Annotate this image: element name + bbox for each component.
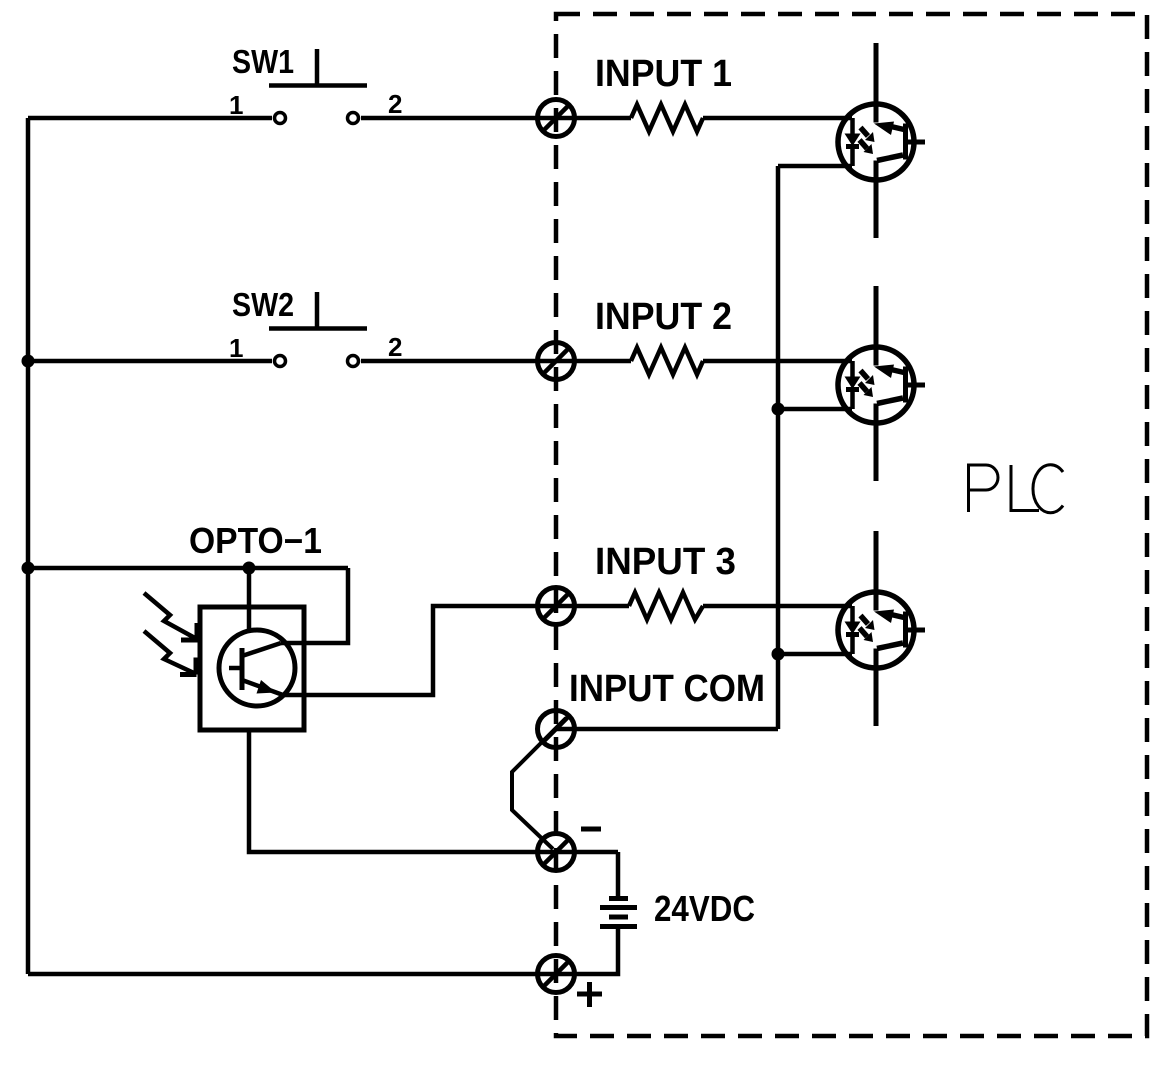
svg-text:INPUT COM: INPUT COM: [569, 668, 765, 710]
PLC label (single-stroke letters): [969, 465, 1064, 513]
junction dot bus / opto2 cathode: [772, 403, 785, 416]
Q1 emitter arrowhead: [257, 680, 277, 694]
optocoupler PLC input 1: [838, 43, 925, 238]
wire INPUT COM terminal to bus: [556, 727, 778, 732]
terminal INPUT 3: [538, 588, 575, 625]
junction dot bus / opto3 cathode: [772, 648, 785, 661]
wire battery to plus terminal: [556, 926, 618, 974]
svg-text:INPUT 2: INPUT 2: [595, 296, 732, 338]
SW1 contact 2: [348, 113, 359, 124]
SW2 contact 2: [348, 356, 359, 367]
svg-text:2: 2: [388, 332, 402, 362]
wire left bus to OPTO-1 top: [28, 566, 348, 571]
terminal INPUT 2: [538, 343, 575, 380]
wire OPTO-1 bottom pin to minus terminal: [249, 730, 618, 852]
plus sign: [577, 982, 602, 1007]
wire OPTO-1 top pin: [247, 568, 252, 630]
Q1 base bar: [240, 648, 245, 690]
wire R1 to optocoupler 1: [703, 116, 852, 121]
svg-text:24VDC: 24VDC: [654, 888, 755, 929]
Q1 collector: [242, 643, 281, 656]
svg-text:INPUT 3: INPUT 3: [595, 541, 736, 583]
resistor R3: [629, 593, 703, 620]
minus sign: [581, 827, 601, 832]
wire collector wrap: [281, 568, 348, 643]
photon arrow 2: [144, 631, 194, 673]
wire INPUT COM to minus terminal (squiggle): [512, 718, 566, 849]
svg-text:1: 1: [229, 90, 243, 120]
junction dot OPTO-1 top pin: [243, 562, 256, 575]
PLC enclosure dashed border: [556, 14, 1147, 1036]
svg-text:SW2: SW2: [232, 286, 294, 323]
wire opto3 LED cathode to bus: [778, 652, 852, 657]
SW2 actuator stem: [315, 292, 320, 328]
SW2 contact 1: [275, 356, 286, 367]
terminal minus: [538, 834, 575, 871]
svg-text:INPUT 1: INPUT 1: [595, 53, 732, 95]
optocoupler PLC input 3: [838, 531, 925, 726]
left bus wire: [26, 118, 31, 974]
wire minus terminal to battery: [616, 852, 621, 897]
SW1 contact 1: [275, 113, 286, 124]
junction dot left bus / OPTO-1: [22, 562, 35, 575]
svg-text:2: 2: [388, 89, 402, 119]
photon arrow 1: [144, 593, 195, 638]
optocoupler PLC input 2: [838, 286, 925, 481]
terminal INPUT 1: [538, 100, 575, 137]
wire R3 to optocoupler 3: [703, 604, 852, 609]
wire SW1 pin1: [28, 116, 272, 121]
SW2 actuator bar: [269, 326, 367, 331]
wire SW1 pin2 to INPUT 1 terminal: [361, 116, 631, 121]
Q1 emitter: [242, 680, 283, 695]
svg-text:SW1: SW1: [232, 43, 294, 80]
wire R2 to optocoupler 2: [703, 359, 852, 364]
phototransistor circle Q1: [219, 630, 295, 706]
wire opto2 LED cathode to bus: [778, 407, 852, 412]
terminal INPUT COM: [538, 711, 575, 748]
svg-text:1: 1: [229, 333, 243, 363]
svg-text:OPTO−1: OPTO−1: [189, 520, 322, 561]
wire SW2 pin2 to INPUT 2 terminal: [361, 359, 631, 364]
wire SW2 pin1: [28, 359, 272, 364]
terminal plus: [538, 956, 575, 993]
SW1 actuator stem: [315, 49, 320, 85]
junction dot left bus / SW2: [22, 355, 35, 368]
Q1 base stub: [229, 666, 242, 671]
wire OPTO-1 emitter to INPUT 3: [283, 606, 629, 695]
resistor R2: [631, 348, 703, 375]
resistor R1: [631, 105, 703, 132]
battery B1 24VDC: [609, 896, 628, 901]
SW1 actuator bar: [269, 83, 367, 88]
common bus wire (vertical): [776, 166, 781, 729]
wire opto1 LED cathode to bus: [778, 164, 852, 169]
OPTO-1 box: [200, 607, 304, 730]
wire left bus to plus terminal: [28, 972, 556, 977]
